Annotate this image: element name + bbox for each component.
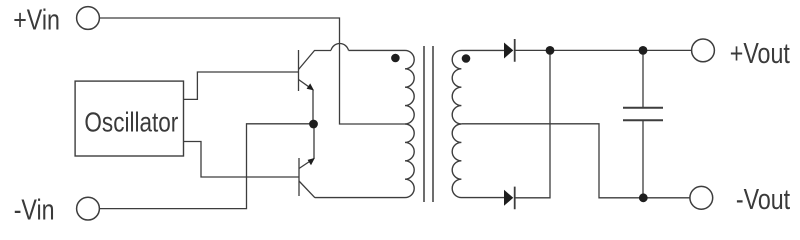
svg-text:-Vin: -Vin <box>14 193 55 226</box>
svg-text:+Vout: +Vout <box>730 37 791 70</box>
svg-text:Oscillator: Oscillator <box>84 107 178 138</box>
svg-text:+Vin: +Vin <box>13 3 60 36</box>
svg-text:-Vout: -Vout <box>736 183 791 216</box>
